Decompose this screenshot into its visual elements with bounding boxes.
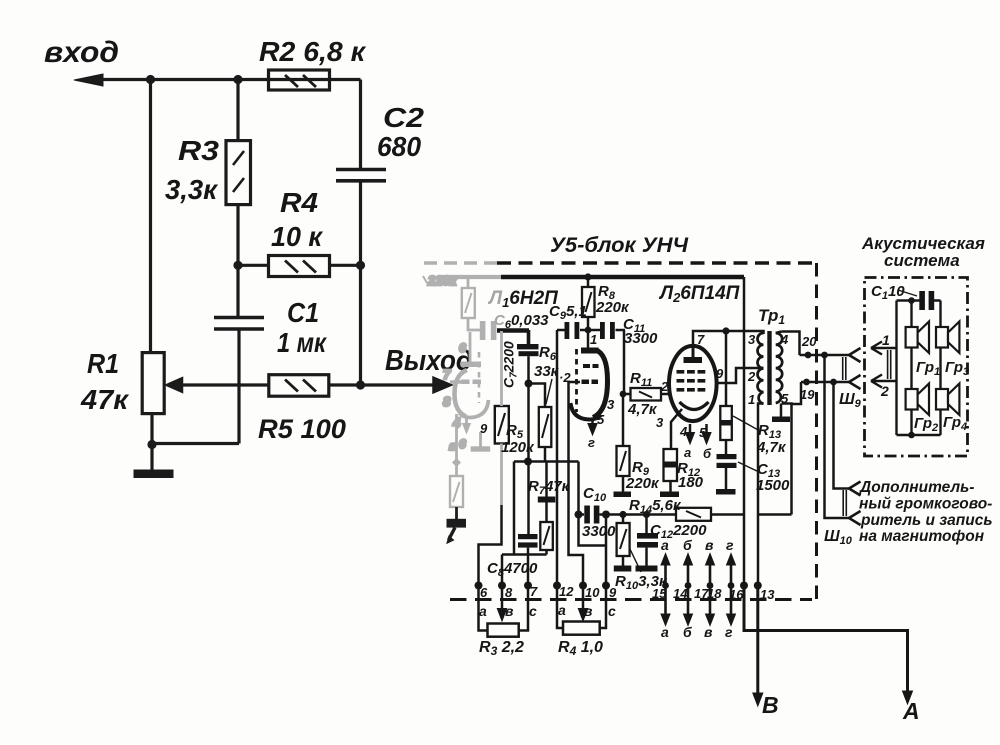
node cathode net bbox=[524, 458, 532, 466]
wire pin13 to B arrow bbox=[756, 586, 759, 695]
border dashed top bbox=[497, 261, 817, 265]
wire anode row bbox=[557, 329, 625, 332]
L2 anode plate bbox=[684, 357, 703, 363]
ground R10 bbox=[614, 566, 632, 572]
tube U1 half 6N2P envelope bbox=[593, 350, 608, 418]
node C10 left bbox=[575, 511, 583, 519]
wire pin8 arrow down bbox=[501, 586, 504, 610]
capacitor C1s bbox=[919, 291, 925, 310]
connector Sh9 pin19 bbox=[849, 375, 861, 389]
svg-text:7: 7 bbox=[697, 332, 705, 347]
svg-text:R3: R3 bbox=[178, 135, 219, 166]
svg-text:б: б bbox=[683, 537, 692, 553]
wire R2 right to C2 bbox=[359, 80, 362, 169]
svg-text:в: в bbox=[705, 537, 714, 553]
capacitor C2 bbox=[336, 170, 386, 181]
svg-text:8: 8 bbox=[505, 585, 513, 600]
wire to Sh10 upper bbox=[834, 382, 850, 489]
connector Sh10 upper bbox=[849, 482, 861, 496]
svg-text:13: 13 bbox=[760, 587, 775, 602]
svg-text:15: 15 bbox=[652, 586, 667, 601]
U5-LABELS bbox=[479, 234, 993, 724]
svg-text:А: А bbox=[902, 698, 920, 724]
svg-text:на магнитофон: на магнитофон bbox=[859, 528, 985, 545]
svg-text:9: 9 bbox=[609, 585, 617, 600]
wire gray rail bbox=[441, 275, 501, 279]
svg-text:9: 9 bbox=[716, 366, 724, 381]
node J3 bbox=[233, 261, 242, 270]
wire C1 bottom bbox=[237, 329, 240, 444]
wire snubber stem bbox=[725, 331, 728, 406]
node pins 6 8 7 12 10 9 bbox=[475, 582, 483, 590]
ground R9 bbox=[614, 492, 632, 498]
svg-text:а: а bbox=[684, 445, 691, 460]
tube gray cathode arc bbox=[460, 400, 489, 418]
svg-text:6: 6 bbox=[480, 585, 488, 600]
resistor R10 bbox=[622, 515, 625, 524]
svg-text:Гр1: Гр1 bbox=[916, 359, 940, 378]
svg-text:2: 2 bbox=[660, 379, 669, 394]
svg-text:7: 7 bbox=[530, 584, 538, 599]
ground C12 bbox=[636, 566, 658, 572]
speaker Gr2 bbox=[906, 389, 918, 410]
svg-text:33к: 33к bbox=[534, 363, 560, 380]
svg-text:9: 9 bbox=[480, 421, 488, 436]
svg-text:1500: 1500 bbox=[756, 477, 790, 494]
capacitor C7 stem bbox=[497, 328, 529, 333]
svg-text:Ш10: Ш10 bbox=[824, 528, 853, 547]
speaker Gr4 bbox=[936, 389, 948, 410]
wire C8 to pin7 bbox=[527, 548, 530, 586]
wire feedback horizontal bbox=[758, 513, 792, 516]
LEFT-LABELS bbox=[44, 36, 472, 444]
svg-text:в: в bbox=[704, 624, 713, 640]
svg-text:10 к: 10 к bbox=[271, 221, 324, 252]
svg-text:в: в bbox=[449, 439, 456, 453]
wire R1 bottom bbox=[150, 414, 153, 471]
svg-text:R11: R11 bbox=[630, 370, 652, 389]
potentiometer R1 bbox=[142, 353, 164, 414]
resistor gray R upper bbox=[467, 279, 470, 288]
gray lower stage black bits bbox=[447, 421, 489, 544]
L1 anode plate bbox=[581, 348, 599, 354]
wire speaker col2 bbox=[939, 301, 941, 436]
svg-text:4: 4 bbox=[679, 424, 688, 439]
svg-text:ный громкогово-: ный громкогово- bbox=[859, 496, 992, 513]
ground R12 bbox=[660, 492, 679, 498]
svg-text:10: 10 bbox=[585, 585, 600, 600]
border dashed gray top bbox=[424, 261, 497, 264]
svg-text:В: В bbox=[762, 692, 779, 718]
svg-text:220к: 220к bbox=[625, 475, 660, 492]
svg-text:680: 680 bbox=[377, 131, 421, 162]
svg-text:19: 19 bbox=[800, 387, 815, 402]
wire R5 to output arrow bbox=[329, 383, 436, 386]
svg-text:R3 2,2: R3 2,2 bbox=[479, 639, 524, 658]
capacitor C6 gray bbox=[480, 321, 486, 340]
wire L1 grid lead bbox=[569, 382, 584, 586]
wire speaker left bus bbox=[895, 301, 897, 436]
border dashed bottom bbox=[450, 598, 812, 601]
svg-text:1: 1 bbox=[882, 332, 890, 348]
L2 anode stem bbox=[692, 346, 695, 358]
wire C7 to C8 vertical bbox=[527, 384, 530, 535]
wire speaker col1 bbox=[910, 301, 912, 436]
svg-text:Л26П14П: Л26П14П bbox=[658, 283, 740, 305]
resistor R4 bbox=[269, 256, 330, 277]
svg-text:20: 20 bbox=[801, 334, 817, 349]
wire gray down to resistor bbox=[455, 414, 458, 476]
svg-text:система: система bbox=[884, 251, 960, 270]
leader R13 label bbox=[733, 416, 760, 431]
svg-text:С10: С10 bbox=[583, 485, 607, 504]
node anode row bbox=[585, 327, 592, 334]
wire secondary bottom ground stub bbox=[780, 404, 783, 418]
node J1 bbox=[146, 75, 155, 84]
border acoustic box dash-dot bbox=[865, 278, 968, 457]
transformer T1 secondary bbox=[776, 333, 782, 403]
wire to Sh10 lower bbox=[825, 355, 850, 518]
wire pin16 to A arrow bbox=[744, 586, 908, 693]
ground C13 bbox=[716, 489, 736, 495]
node 20a bbox=[805, 352, 812, 359]
wire T1 tap2 stub bbox=[758, 367, 764, 370]
svg-text:б: б bbox=[703, 446, 712, 461]
node gray bbox=[452, 458, 461, 467]
resistor R8 bbox=[587, 279, 590, 330]
resistor R13 bbox=[720, 406, 732, 440]
resistor R5 bbox=[269, 375, 329, 397]
svg-text:Ш9: Ш9 bbox=[839, 391, 862, 410]
svg-text:С72200: С72200 bbox=[501, 341, 520, 388]
cable Sh9 pair bbox=[843, 357, 846, 380]
L2 cathode arc bbox=[680, 402, 709, 410]
tube gray grid dashes bbox=[461, 380, 470, 385]
leader R6 label bbox=[546, 379, 552, 404]
node R1 wiper arrow bbox=[166, 378, 183, 393]
resistor R5b 120k bbox=[495, 406, 509, 444]
node J6 bbox=[147, 440, 156, 449]
tube U2 6P14P envelope bbox=[669, 346, 717, 421]
transformer T1 primary bbox=[758, 333, 764, 404]
cable speaker pair bbox=[888, 350, 891, 379]
node bottom bbox=[908, 432, 915, 439]
svg-text:R2 6,8 к: R2 6,8 к bbox=[259, 36, 367, 67]
wire input top bbox=[87, 78, 361, 81]
svg-text:в: в bbox=[505, 603, 514, 619]
node rail R8 bbox=[584, 273, 591, 280]
pin row numbers bbox=[480, 584, 775, 602]
svg-text:R6: R6 bbox=[539, 344, 557, 363]
svg-text:С122200: С122200 bbox=[650, 522, 707, 541]
node J2 bbox=[233, 75, 242, 84]
cable Sh10 pair bbox=[843, 490, 846, 516]
svg-text:7: 7 bbox=[443, 367, 451, 382]
mark black hook bbox=[449, 528, 456, 541]
wire pin8 bbox=[501, 555, 504, 586]
wire L1 cathode lead arrow bbox=[591, 420, 594, 424]
svg-text:R5 100: R5 100 bbox=[258, 414, 346, 444]
capacitor C1 bbox=[214, 318, 264, 330]
L1 cathode arc bbox=[571, 403, 602, 420]
svg-text:2: 2 bbox=[747, 369, 756, 384]
wire cathode net left leg bbox=[502, 462, 547, 555]
L1 grid dashes bbox=[583, 364, 590, 368]
wire black stub under gray resistor bbox=[455, 507, 458, 519]
svg-text:5: 5 bbox=[699, 425, 707, 440]
svg-text:R145,6к: R145,6к bbox=[629, 497, 682, 516]
node 19b bbox=[830, 379, 837, 386]
leader C13 label bbox=[738, 462, 759, 472]
node 19a bbox=[803, 379, 810, 386]
svg-text:14: 14 bbox=[673, 586, 688, 601]
capacitor C10 bbox=[579, 513, 585, 516]
svg-text:Л16Н2П: Л16Н2П bbox=[487, 288, 558, 310]
L2 grid dashes bbox=[677, 370, 685, 374]
svg-text:180: 180 bbox=[678, 474, 704, 491]
svg-text:R1: R1 bbox=[87, 348, 119, 379]
node R10 bbox=[619, 511, 626, 518]
resistor R12 bbox=[664, 449, 678, 481]
wire L2 screen lead bbox=[717, 368, 764, 383]
svg-text:5: 5 bbox=[597, 412, 605, 427]
svg-text:г: г bbox=[726, 537, 734, 553]
speaker Gr3 bbox=[936, 327, 948, 348]
terminal letters row1 bbox=[479, 537, 734, 640]
node C7 bottom bbox=[525, 380, 533, 388]
capacitor C12 bbox=[645, 515, 648, 534]
wire C11 right down to R11 node bbox=[623, 330, 624, 446]
svg-text:Гр2: Гр2 bbox=[914, 415, 938, 434]
svg-text:Дополнитель-: Дополнитель- bbox=[858, 479, 974, 496]
svg-text:а: а bbox=[479, 603, 487, 619]
svg-text:3,3к: 3,3к bbox=[165, 174, 219, 205]
ground black under gray resistor bbox=[447, 519, 467, 528]
wire pin10 arrow down bbox=[582, 586, 585, 610]
wire L2 heater arrow a bbox=[689, 424, 692, 433]
capacitor C13 bbox=[717, 454, 737, 459]
resistor R14 bbox=[676, 508, 711, 521]
svg-text:120к: 120к bbox=[501, 439, 535, 456]
arrow speaker 2 bbox=[871, 375, 897, 388]
wire secondary bottom riser bbox=[782, 404, 792, 515]
svg-text:3300: 3300 bbox=[582, 523, 616, 540]
wire C9 left down to pin 12 bbox=[556, 330, 559, 586]
svg-text:6: 6 bbox=[459, 341, 466, 355]
wire secondary top to 20 bbox=[776, 332, 800, 356]
wire R3 bottom to C1 bbox=[236, 205, 239, 318]
svg-text:C1: C1 bbox=[287, 297, 319, 328]
svg-text:·2: ·2 bbox=[559, 370, 571, 385]
border dashed right bbox=[815, 263, 818, 599]
ground T1 secondary bbox=[772, 417, 790, 423]
svg-text:16: 16 bbox=[729, 587, 744, 602]
wire L2 anode top to transformer bbox=[693, 331, 764, 349]
capacitor C8 bbox=[518, 534, 538, 539]
svg-text:4,7к: 4,7к bbox=[627, 401, 658, 418]
svg-text:б: б bbox=[683, 624, 692, 640]
wire left vertical to R1 bbox=[149, 80, 152, 353]
wire speaker top bbox=[897, 299, 941, 301]
svg-text:R4: R4 bbox=[280, 187, 318, 218]
svg-text:3300: 3300 bbox=[624, 330, 658, 347]
svg-text:6: 6 bbox=[459, 437, 466, 451]
tube gray grid lead bbox=[450, 380, 461, 383]
node C12 bbox=[643, 511, 650, 518]
wire cathode net horizontal bbox=[514, 460, 579, 463]
resistor gray lower bbox=[450, 476, 463, 507]
capacitor C11 bbox=[600, 322, 605, 339]
tube gray half envelope bbox=[455, 370, 468, 417]
resistor R3 bbox=[226, 141, 251, 205]
wire wiper to R5 bbox=[182, 383, 269, 386]
tube gray cathode arrow bbox=[465, 418, 468, 423]
wire B+ rail bbox=[501, 275, 744, 279]
wire T1 primary bottom to pin13 line bbox=[758, 404, 764, 586]
svg-text:4,7к: 4,7к bbox=[756, 439, 787, 456]
node input arrow bbox=[74, 74, 103, 86]
svg-text:1 мк: 1 мк bbox=[277, 327, 328, 358]
svg-text:2: 2 bbox=[880, 383, 889, 399]
node C10 right bbox=[602, 511, 610, 519]
wire C10 net vertical bbox=[579, 462, 607, 586]
pin labels tubes bbox=[559, 332, 817, 461]
svg-text:R747к: R747к bbox=[528, 478, 571, 497]
svg-text:3: 3 bbox=[656, 415, 664, 430]
svg-text:47к: 47к bbox=[80, 384, 130, 415]
connector Sh10 lower bbox=[849, 511, 861, 525]
GRAY-FADED-SECTION bbox=[423, 263, 502, 507]
svg-text:220к: 220к bbox=[427, 273, 458, 288]
svg-text:в: в bbox=[584, 603, 593, 619]
wire R3 top bbox=[236, 80, 239, 141]
wire gray to C6 bbox=[468, 318, 480, 330]
wire R4 leads bbox=[238, 264, 361, 267]
wire gray grid drop bbox=[500, 331, 503, 505]
svg-text:вход: вход bbox=[44, 36, 119, 69]
svg-text:Тр1: Тр1 bbox=[758, 306, 785, 327]
resistor R2 bbox=[269, 70, 330, 90]
transformer T1 core bbox=[767, 331, 771, 405]
node anode snubber bbox=[722, 327, 729, 334]
svg-text:а: а bbox=[661, 624, 669, 640]
svg-text:220к: 220к bbox=[595, 299, 630, 316]
svg-text:ритель и запись: ритель и запись bbox=[860, 512, 993, 529]
svg-text:с: с bbox=[529, 603, 537, 619]
wire 20 bbox=[800, 354, 850, 357]
resistor R5b stem black bbox=[479, 505, 502, 586]
node 20b bbox=[821, 352, 828, 359]
leader R10 label bbox=[629, 547, 641, 572]
ground left bbox=[134, 470, 174, 479]
wire B+ vertical pin16 bbox=[743, 277, 746, 586]
svg-text:5: 5 bbox=[781, 391, 789, 406]
wire L2 cathode to R12 bbox=[671, 409, 682, 449]
svg-text:С84700: С84700 bbox=[487, 560, 538, 579]
wire C2 to output node bbox=[359, 182, 362, 385]
svg-text:R4 1,0: R4 1,0 bbox=[558, 639, 603, 658]
svg-text:С110: С110 bbox=[871, 283, 905, 302]
svg-text:4: 4 bbox=[452, 415, 461, 430]
connector Sh9 pin20 bbox=[849, 348, 861, 362]
node output arrow bbox=[433, 377, 452, 393]
wire speaker bottom bbox=[897, 434, 941, 436]
node grid L2 bbox=[620, 391, 627, 398]
svg-text:а: а bbox=[558, 602, 566, 618]
svg-text:с: с bbox=[608, 603, 616, 619]
resistor R9 bbox=[617, 446, 630, 476]
svg-text:Гр3: Гр3 bbox=[945, 359, 969, 378]
svg-text:3: 3 bbox=[607, 397, 615, 412]
ground gray cathode bbox=[479, 432, 482, 447]
capacitor C7 bbox=[517, 344, 539, 349]
leader C1s label bbox=[898, 290, 917, 296]
node top bbox=[908, 297, 915, 304]
wire L1 anode stem bbox=[587, 330, 590, 348]
svg-text:C2: C2 bbox=[383, 102, 424, 133]
svg-text:У5-блок УНЧ: У5-блок УНЧ bbox=[550, 234, 689, 257]
svg-text:1: 1 bbox=[590, 332, 597, 347]
node arrows dots bbox=[662, 582, 669, 589]
arrow speaker 1 bbox=[871, 342, 897, 355]
resistor R6 bbox=[539, 407, 552, 447]
node J4 bbox=[356, 261, 365, 270]
svg-text:8: 8 bbox=[443, 394, 451, 409]
svg-text:12: 12 bbox=[559, 584, 574, 599]
svg-text:4: 4 bbox=[780, 332, 789, 347]
arrows terminals a b v g bbox=[664, 558, 667, 621]
resistor R7 trimmer bbox=[545, 462, 548, 498]
capacitor C9 bbox=[565, 322, 570, 339]
resistor R3b bbox=[488, 624, 519, 637]
svg-text:1: 1 bbox=[748, 392, 755, 407]
resistor R11 bbox=[623, 393, 670, 396]
svg-text:18: 18 bbox=[707, 586, 722, 601]
tube gray anode bbox=[469, 332, 472, 362]
wire R14 right bbox=[711, 513, 744, 516]
svg-text:г: г bbox=[588, 435, 595, 450]
resistor R4b legs bbox=[557, 586, 606, 629]
resistor R3b legs bbox=[479, 586, 529, 631]
svg-text:г: г bbox=[725, 624, 733, 640]
wire 19 bbox=[792, 382, 850, 404]
speaker Gr1 bbox=[906, 327, 918, 348]
LEFT-SCHEMATIC bbox=[74, 70, 452, 478]
svg-text:С95,1: С95,1 bbox=[549, 303, 587, 322]
wire R6 jog bbox=[529, 384, 546, 408]
resistor R4b bbox=[563, 622, 600, 635]
U5-BLOCK bbox=[450, 263, 913, 706]
svg-text:С60,033: С60,033 bbox=[494, 312, 549, 331]
wire L2 heater arrow b bbox=[705, 424, 708, 433]
wire feedback net to R14 bbox=[606, 513, 676, 516]
svg-text:3: 3 bbox=[748, 332, 756, 347]
SPEAKER-BOX bbox=[865, 278, 968, 457]
node J5 bbox=[356, 380, 365, 389]
svg-text:Гр4: Гр4 bbox=[943, 414, 967, 433]
svg-text:а: а bbox=[661, 537, 669, 553]
wire bottom horizontal bbox=[152, 442, 239, 445]
